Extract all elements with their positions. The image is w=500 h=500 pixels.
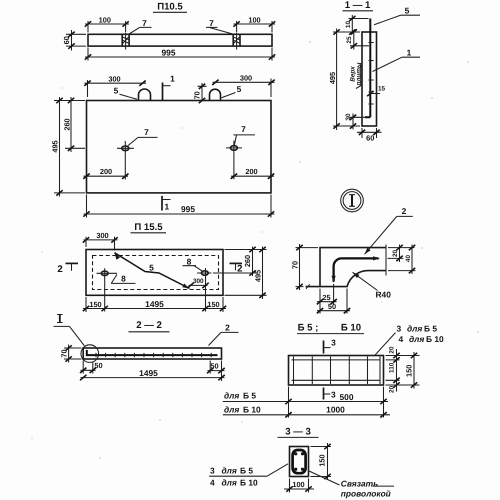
svg-text:для: для <box>222 478 237 488</box>
corner bar 2 (thick) <box>332 256 381 282</box>
dimension 50 left (2-2) <box>80 361 103 374</box>
row for B10: label and 1000 dimension <box>223 404 390 417</box>
svg-text:2: 2 <box>57 264 62 275</box>
svg-text:70: 70 <box>59 349 68 357</box>
svg-text:110: 110 <box>389 362 396 373</box>
plate section 1-1 outline <box>362 32 377 126</box>
small dimension 300 right <box>187 278 208 288</box>
dimension 300 top-left of plan <box>84 74 146 97</box>
svg-text:Б 10: Б 10 <box>341 323 361 334</box>
dimension 260 left <box>62 97 85 152</box>
reinforcement contour (dashed) <box>93 256 219 290</box>
svg-text:495: 495 <box>328 72 337 84</box>
dimension 50 (detail) <box>317 289 350 314</box>
svg-text:150: 150 <box>405 365 414 377</box>
dimension 40 (detail) <box>388 245 416 275</box>
lifting loop left <box>139 89 151 101</box>
svg-text:100: 100 <box>99 16 111 25</box>
plate section 2-2 outline <box>83 348 221 359</box>
svg-text:30: 30 <box>345 113 352 121</box>
svg-text:для: для <box>224 391 239 401</box>
svg-text:25: 25 <box>322 293 330 302</box>
svg-text:500: 500 <box>340 392 354 402</box>
svg-text:1495: 1495 <box>145 299 164 309</box>
svg-text:1000: 1000 <box>326 405 345 415</box>
svg-text:10: 10 <box>345 21 352 29</box>
beam section outline <box>290 447 309 477</box>
dimension 30 <box>345 113 365 129</box>
svg-text:3: 3 <box>210 466 215 476</box>
svg-text:7: 7 <box>142 18 147 28</box>
hole left (plan) <box>117 141 134 180</box>
svg-text:40: 40 <box>405 255 412 263</box>
section mark 1 (bottom) <box>162 196 171 212</box>
dimension 50 right (2-2) <box>207 361 225 374</box>
label 8 right <box>183 256 204 272</box>
title P15.5 <box>131 222 167 233</box>
svg-text:8: 8 <box>187 256 192 266</box>
svg-text:50: 50 <box>210 361 218 370</box>
svg-text:4: 4 <box>210 478 215 488</box>
svg-text:Б 5: Б 5 <box>240 466 253 476</box>
labels 3 for B5 / 4 for B10 (3-3) <box>209 464 288 488</box>
corner bars <box>294 452 297 455</box>
section mark 3 (top) <box>324 337 337 353</box>
label 7 for right hole <box>234 124 256 145</box>
plate P10.5 plan outline <box>87 101 272 193</box>
label 5 with leader (1-1) <box>374 6 420 25</box>
label R40 with leader <box>351 271 391 300</box>
dimension 60 left <box>62 30 86 51</box>
svg-text:для: для <box>409 334 424 344</box>
detail circle at left end <box>81 345 99 363</box>
svg-text:495: 495 <box>253 270 262 282</box>
dimension 70 at right loop <box>192 83 206 103</box>
svg-text:5: 5 <box>149 262 154 272</box>
label 5 right with leader <box>222 84 242 98</box>
stirrups <box>294 357 381 385</box>
label 7 for left hole <box>128 127 158 146</box>
svg-text:20: 20 <box>392 250 399 258</box>
stirrup ring <box>293 450 306 473</box>
svg-text:1495: 1495 <box>139 368 158 378</box>
dimension 70 (detail) <box>290 244 318 290</box>
dimension 995 bottom of plan <box>83 195 274 218</box>
joint strip left (hatched) <box>122 34 129 46</box>
svg-text:Б 10: Б 10 <box>426 334 444 344</box>
svg-text:5: 5 <box>405 6 410 16</box>
dimension 495 (1-1) <box>328 29 360 131</box>
scan noise specks <box>31 41 479 459</box>
label 7 left with leader <box>128 18 151 35</box>
rebar 1-1 with top loop end and bottom hook <box>365 19 370 118</box>
svg-text:150: 150 <box>318 454 327 466</box>
svg-text:8: 8 <box>121 273 126 283</box>
title 3-3 <box>278 427 319 438</box>
svg-text:20: 20 <box>389 346 396 354</box>
bottom dimension chain 150/1495/150 <box>83 297 226 312</box>
hole right (P15.5) <box>197 268 212 312</box>
edge break tick <box>306 284 310 289</box>
hole right (plan) <box>226 141 242 180</box>
svg-text:60: 60 <box>62 36 71 44</box>
joint strip right (hatched) <box>233 34 240 46</box>
beam cage outline <box>289 356 384 386</box>
svg-text:7: 7 <box>209 18 214 28</box>
detail callout I <box>54 315 85 346</box>
dimension 70 (2-2) <box>59 345 81 363</box>
cross-bar ticks on rebar <box>96 353 211 357</box>
svg-text:3 — 3: 3 — 3 <box>285 427 311 438</box>
section mark 2 right <box>230 263 243 274</box>
svg-text:5: 5 <box>114 86 119 96</box>
dimension 25 (detail) <box>317 284 337 314</box>
svg-text:300: 300 <box>240 73 252 82</box>
section mark 2 left <box>57 263 78 275</box>
svg-text:3: 3 <box>331 390 336 400</box>
svg-text:300: 300 <box>193 278 204 285</box>
dimension 100 top-left <box>85 16 129 50</box>
svg-text:проволокой: проволокой <box>341 488 391 498</box>
bent bar 5 <box>113 252 191 291</box>
dimension chain 20/110/20 <box>386 346 400 393</box>
label 5 left with leader <box>114 86 137 100</box>
title B5 ; B10 <box>297 323 364 334</box>
svg-text:для: для <box>224 404 239 414</box>
svg-text:для: для <box>222 466 237 476</box>
svg-text:3: 3 <box>331 337 336 347</box>
svg-text:2: 2 <box>225 323 230 333</box>
svg-text:Б 5: Б 5 <box>243 391 256 401</box>
svg-text:60: 60 <box>366 133 374 142</box>
dimension 995 bottom of elevation <box>85 48 275 61</box>
svg-text:Связать: Связать <box>341 479 378 489</box>
dimension 60 (1-1 bottom) <box>357 128 382 142</box>
section mark 3 (bottom) <box>324 388 336 400</box>
label 2 with leader <box>363 206 413 256</box>
svg-text:15: 15 <box>378 86 386 93</box>
dimension 25 <box>346 29 369 49</box>
svg-text:3: 3 <box>397 324 402 334</box>
svg-text:200: 200 <box>100 167 112 176</box>
svg-text:П10.5: П10.5 <box>157 2 183 13</box>
label 2 with leader (2-2) <box>209 323 239 346</box>
svg-text:150: 150 <box>89 300 101 309</box>
dimension 200 right <box>231 167 274 179</box>
svg-text:260: 260 <box>243 255 252 267</box>
svg-text:100: 100 <box>292 480 304 489</box>
dimension 15 <box>367 86 385 97</box>
svg-text:7: 7 <box>241 124 246 134</box>
svg-text:70: 70 <box>290 261 299 269</box>
dimension 495 left <box>50 97 85 197</box>
svg-text:2 — 2: 2 — 2 <box>136 320 162 331</box>
dimension 150 (3-3) <box>311 443 332 480</box>
svg-text:Б 5 ;: Б 5 ; <box>298 323 319 334</box>
svg-text:R40: R40 <box>376 290 392 300</box>
dimension 300 top-right of plan <box>212 73 274 97</box>
section mark 1 (top) <box>163 74 176 101</box>
svg-text:495: 495 <box>50 140 59 152</box>
dimension 495 right (P15.5) <box>225 247 267 300</box>
svg-text:70: 70 <box>192 91 201 99</box>
svg-text:995: 995 <box>181 204 195 214</box>
cross-bar marks <box>369 43 374 105</box>
svg-text:20: 20 <box>389 385 396 393</box>
svg-text:для: для <box>407 324 422 334</box>
dimension 300 (P15.5) <box>83 231 118 251</box>
dimension 1495 (2-2) <box>80 361 225 382</box>
dimension 20 (detail) <box>388 245 415 263</box>
label 8 left <box>111 273 136 283</box>
svg-text:Б 5: Б 5 <box>424 324 437 334</box>
svg-text:1: 1 <box>407 48 412 58</box>
dimension 10 <box>345 15 369 35</box>
label 1 with leader (1-1) <box>373 48 421 72</box>
plate P10.5 elevation outline <box>88 34 272 46</box>
plate P15.5 outline <box>86 250 223 296</box>
dimension 260 right (P15.5) <box>213 247 267 277</box>
svg-text:1: 1 <box>170 74 175 84</box>
svg-text:4: 4 <box>399 334 404 344</box>
svg-text:260: 260 <box>62 118 71 130</box>
labels 3 for B5 / 4 for B10 <box>375 324 444 356</box>
title 2-2 <box>129 320 170 332</box>
title P10.5 <box>153 2 187 13</box>
svg-text:П 15.5: П 15.5 <box>134 222 163 233</box>
dimension 100 top-right <box>233 16 275 50</box>
dimension 150 (beam) <box>386 352 420 389</box>
lifting loop right <box>210 89 221 100</box>
label 7 right with leader <box>206 18 235 35</box>
note tie with wire <box>309 471 394 498</box>
rebar with hook (2-2) <box>87 350 218 355</box>
svg-text:300: 300 <box>108 74 120 83</box>
svg-text:5: 5 <box>237 84 242 94</box>
longitudinal bars <box>292 360 381 380</box>
svg-text:300: 300 <box>96 231 108 240</box>
svg-text:50: 50 <box>94 361 102 370</box>
svg-text:150: 150 <box>207 300 219 309</box>
title 1-1 <box>343 0 374 11</box>
dimension 100 (3-3) <box>284 479 314 493</box>
svg-text:1: 1 <box>164 202 169 212</box>
svg-text:100: 100 <box>248 16 260 25</box>
svg-text:Б 10: Б 10 <box>240 478 258 488</box>
note Verh plity (rotated) <box>350 62 363 88</box>
svg-text:7: 7 <box>144 127 149 137</box>
svg-text:25: 25 <box>346 36 353 44</box>
svg-text:1 — 1: 1 — 1 <box>345 0 371 11</box>
svg-text:плиты: плиты <box>356 62 363 85</box>
svg-text:2: 2 <box>402 206 407 216</box>
concrete corner outline <box>306 248 387 287</box>
hole left (P15.5) <box>97 268 118 311</box>
svg-text:995: 995 <box>162 48 176 58</box>
row for B5: label and 500 dimension <box>223 387 388 418</box>
svg-text:200: 200 <box>245 167 257 176</box>
dimension 200 left <box>83 167 128 179</box>
svg-text:50: 50 <box>328 302 336 311</box>
svg-text:Б 10: Б 10 <box>243 404 261 414</box>
